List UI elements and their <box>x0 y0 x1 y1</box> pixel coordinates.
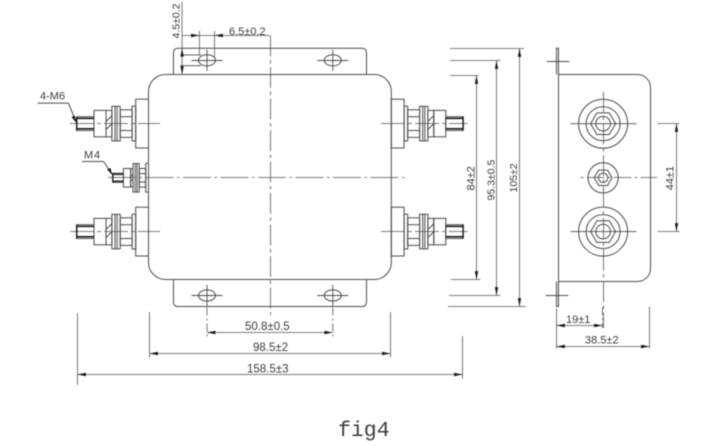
bottom bent tab <box>546 282 569 307</box>
bottom mounting flange <box>174 280 367 307</box>
flange hole bottom-right <box>317 285 348 306</box>
caption fig4 <box>338 419 390 443</box>
terminal M6 left-bottom <box>77 207 149 256</box>
svg-text:6.5±0.2: 6.5±0.2 <box>229 26 266 38</box>
side view vertical centerline <box>603 92 605 328</box>
flange hole top-left (slot) <box>181 50 223 71</box>
svg-text:4.5±0.2: 4.5±0.2 <box>171 3 183 38</box>
svg-text:fig4: fig4 <box>338 419 390 443</box>
terminal crosshair bottom <box>70 231 468 233</box>
flange hole bottom-left <box>192 285 223 306</box>
svg-text:95.3±0.5: 95.3±0.5 <box>486 160 498 201</box>
round terminal bottom <box>571 207 637 256</box>
svg-text:98.5±2: 98.5±2 <box>253 342 288 354</box>
terminal M6 right-top <box>391 99 463 148</box>
round terminal middle <box>588 163 618 193</box>
svg-text:M4: M4 <box>84 150 101 162</box>
dimension 84±2 <box>450 76 481 280</box>
horizontal centerline <box>108 177 405 179</box>
svg-text:50.8±0.5: 50.8±0.5 <box>245 321 290 333</box>
dimension 158.5±3 <box>78 313 463 385</box>
dimension 95.3±0.5 <box>449 61 501 296</box>
svg-text:38.5±2: 38.5±2 <box>585 335 619 347</box>
filter body <box>149 75 392 280</box>
svg-text:4-M6: 4-M6 <box>40 91 65 103</box>
dimension 98.5±2 <box>150 312 391 358</box>
dimension 50.8±0.5 <box>207 308 333 338</box>
terminal M6 left-top <box>77 99 149 148</box>
svg-text:158.5±3: 158.5±3 <box>247 363 289 375</box>
dimension 44±1 <box>658 124 680 232</box>
terminal M4 left-middle <box>113 164 149 193</box>
top mounting flange <box>174 48 367 74</box>
dimension 19±1 <box>557 307 603 349</box>
svg-text:44±1: 44±1 <box>665 166 677 190</box>
side plate <box>559 75 651 282</box>
terminal crosshair top <box>70 123 468 125</box>
label M4 <box>82 150 113 176</box>
label 4-M6 <box>38 91 77 124</box>
terminal M6 right-bottom <box>391 207 463 256</box>
dimension 4.5±0.2 <box>181 2 183 75</box>
svg-text:19±1: 19±1 <box>566 314 590 326</box>
top bent tab <box>547 48 570 74</box>
flange hole top-right <box>317 50 348 71</box>
round terminal top <box>571 99 637 148</box>
vertical centerline <box>270 36 272 316</box>
dimension 38.5±2 <box>557 307 650 349</box>
dimension 6.5±0.2 <box>182 31 270 58</box>
dimension 105±2 <box>448 49 526 307</box>
svg-text:105±2: 105±2 <box>508 163 520 192</box>
svg-text:84±2: 84±2 <box>466 166 478 190</box>
